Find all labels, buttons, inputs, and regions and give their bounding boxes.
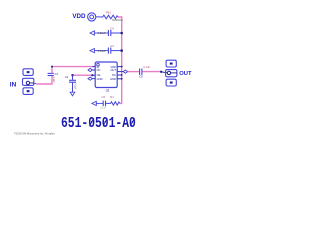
svg-text:C1: C1 [55, 72, 59, 76]
svg-text:IN: IN [97, 65, 100, 69]
svg-text:R1: R1 [110, 95, 114, 99]
pin 6 stub [117, 74, 122, 76]
capacitor C1 [48, 72, 59, 83]
ferrite bead FB1 [101, 11, 123, 22]
connector J1 IN [10, 69, 36, 95]
svg-text:0.1uF: 0.1uF [73, 83, 76, 90]
pin 7 diamond [123, 70, 127, 73]
junction (C2 top) [71, 74, 73, 76]
ground (C3) [90, 49, 108, 53]
resistor R1 [110, 95, 120, 105]
VDD power symbol [88, 13, 101, 21]
svg-text:NC: NC [112, 73, 116, 77]
wire C5 to OUT connector [142, 71, 161, 73]
svg-text:VDD: VDD [72, 13, 86, 20]
svg-text:OUT: OUT [110, 68, 116, 72]
svg-text:GND: GND [110, 77, 116, 81]
svg-text:©2018 XM Micromere Inc. All ri: ©2018 XM Micromere Inc. All rights [14, 131, 55, 135]
junction (C3 to VDD net) [120, 49, 123, 52]
svg-text:VDD: VDD [110, 65, 116, 69]
capacitor C6 [100, 95, 109, 109]
wire IN to C1 [36, 76, 52, 84]
svg-text:NC: NC [97, 68, 101, 72]
svg-text:0.1uF: 0.1uF [52, 77, 55, 84]
text PCB number 651-0501-A0 [61, 114, 136, 132]
capacitor C3 [98, 44, 122, 54]
wire U1 OUT to C5 [128, 71, 139, 73]
svg-text:0.1uF: 0.1uF [100, 107, 106, 109]
svg-text:0.01uF: 0.01uF [98, 49, 106, 53]
svg-text:C5: C5 [139, 75, 143, 79]
junction (C1 corner) [51, 66, 53, 68]
wire C2 to U1 pin3 [73, 74, 93, 76]
svg-text:C3: C3 [110, 44, 114, 48]
junction (C4 to VDD net) [120, 32, 123, 35]
text copyright [14, 131, 55, 135]
svg-text:0.1uF: 0.1uF [143, 65, 150, 69]
ground (C4) [90, 31, 108, 35]
capacitor C4 [98, 27, 122, 36]
svg-text:FB1: FB1 [106, 11, 112, 15]
ground (C2) [70, 92, 75, 96]
pin 2 no-connect diamond [88, 68, 95, 71]
svg-text:0.01uF: 0.01uF [98, 31, 106, 35]
svg-text:IN: IN [10, 81, 17, 88]
pin 4 no-connect diamond [88, 77, 95, 80]
pin 7 stub (OUT) [117, 71, 123, 73]
svg-text:C2: C2 [65, 75, 69, 79]
svg-text:C4: C4 [110, 27, 114, 31]
pin 3 stub [91, 74, 95, 76]
svg-text:651-0501-A0: 651-0501-A0 [61, 114, 136, 132]
node VDD label [72, 13, 86, 20]
pin 5 stub [117, 78, 122, 80]
junction (OUT connector pin) [160, 71, 162, 73]
svg-text:GND: GND [97, 77, 103, 81]
op-amp U1 (oscillator IC) [95, 62, 117, 93]
connector J2 OUT [161, 60, 192, 86]
svg-text:C6: C6 [102, 95, 106, 99]
pin 1 stub [93, 66, 96, 68]
capacitor C2 [65, 75, 77, 92]
wire VDD net vertical [118, 17, 122, 103]
svg-text:OUT: OUT [179, 71, 192, 77]
svg-text:U1: U1 [106, 89, 110, 93]
wire C1 to U1 pin1 [52, 67, 94, 74]
svg-text:OE: OE [97, 73, 101, 77]
pin 8 stub (VDD) [117, 66, 122, 68]
capacitor C5 [139, 65, 150, 79]
ground (C6) [92, 101, 103, 105]
